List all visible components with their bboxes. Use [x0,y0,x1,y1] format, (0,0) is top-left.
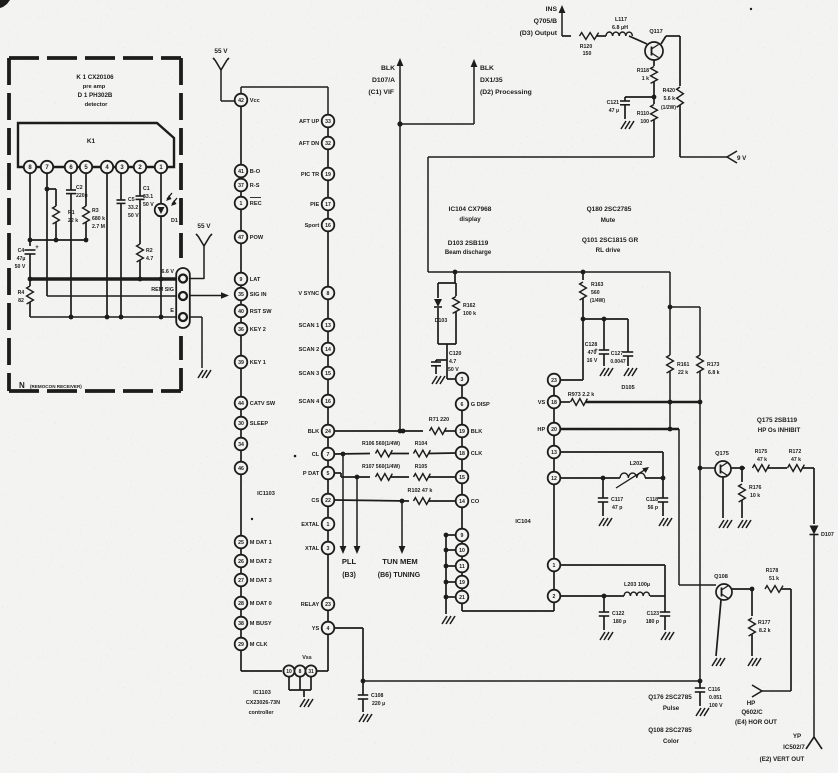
svg-text:5.6 k: 5.6 k [663,96,675,102]
pad E [179,313,187,321]
BLK wire pin24 to IC104 pin19 [334,430,423,432]
K1 pin 3 [116,161,128,173]
svg-text:IC1103: IC1103 [257,491,275,497]
IC1103 right rail segment to pin 32 [327,127,329,136]
IC1103 left rail segment to pin 9 [240,243,242,272]
IC1103 right rail segment to pin 22 [327,479,329,493]
svg-text:PIE: PIE [310,202,319,208]
node VIF / processing junction [397,121,402,126]
IC1103 pin 16 Sport [305,219,335,232]
node YS bottom rail [361,679,366,684]
svg-text:40: 40 [238,309,244,315]
svg-text:4.7: 4.7 [146,256,153,262]
svg-text:23: 23 [551,378,557,384]
hybrid module K1 body [18,123,174,167]
svg-text:R161: R161 [677,362,690,368]
IC1103 left rail segment to pin 27 [240,567,242,573]
svg-text:XTAL: XTAL [305,546,320,552]
svg-text:42: 42 [238,98,244,104]
node x669 top branch [668,305,673,310]
IC1103 right rail segment to pin 19 [327,149,329,167]
svg-text:47: 47 [238,235,244,241]
svg-text:(B3): (B3) [342,572,356,579]
IC1103 right rail segment to pin 17 [327,180,329,197]
IC1103 pin 32 AFT DN [299,137,335,150]
svg-text:56 p: 56 p [648,505,658,511]
svg-text:KEY 1: KEY 1 [250,360,266,366]
svg-text:36: 36 [238,327,244,333]
node BLK VIF junction [401,429,406,434]
svg-text:C122: C122 [612,611,625,617]
svg-text:KEY 2: KEY 2 [250,327,266,333]
svg-text:29: 29 [238,642,244,648]
IC104 pin 15 [456,471,469,484]
svg-text:BLK: BLK [471,429,483,435]
svg-text:(B6) TUNING: (B6) TUNING [378,572,421,579]
IC1103 pin 38 M BUSY [235,617,272,630]
PLL arrow from CL [342,454,344,548]
bottom long rail [363,680,700,682]
svg-text:D 1 PH302B: D 1 PH302B [78,92,113,99]
IC1103 pin 1 REC [235,197,262,210]
IC1103 pin 27 M DAT 3 [235,574,272,587]
svg-text:560: 560 [591,290,600,296]
svg-text:POW: POW [250,235,264,241]
svg-text:Pulse: Pulse [663,705,680,712]
IC1103 pin 46 [235,462,248,475]
IC1103 top rail [241,86,328,88]
IC104 pin 18 CLK [456,447,483,460]
ground C122 [600,632,605,640]
svg-text:1 k: 1 k [642,76,649,82]
svg-text:2.7 M: 2.7 M [92,224,105,230]
IC104 pin 18 VS [538,396,561,409]
CS wire pin22 to IC104 pin14 CO [334,500,409,501]
wire HP pin20 [560,428,679,430]
IC104 bottom-left pin stubs [446,534,456,536]
IC104 pin 21 [456,591,469,604]
node pin8 / 240 rail [28,238,33,243]
IC1103 pin 37 R-S [235,179,260,192]
IC1103 left rail segment to pin 40 [240,300,242,304]
svg-text:10: 10 [459,548,465,554]
svg-text:C4: C4 [18,248,25,254]
IC1103 left rail segment to pin 41 [240,106,242,164]
svg-text:CS: CS [311,498,319,504]
ground C123 [661,632,666,640]
transistor Q108 [716,584,732,600]
svg-text:detector: detector [85,102,109,108]
stray scan speck 3 [690,771,692,773]
svg-text:16: 16 [325,399,331,405]
IC1103 left rail segment to pin 44 [240,368,242,396]
IC104 right rail segment to pin 18 [553,386,555,395]
node CL PLL branch [341,452,346,457]
variable inductor L202 [620,473,645,478]
ground C116 [696,708,701,716]
svg-text:Color: Color [663,738,680,745]
svg-text:9: 9 [461,533,464,539]
node Q175 base junction [698,466,703,471]
wire R120 to L117 [596,35,606,37]
svg-text:R178: R178 [766,568,779,574]
inductor L117 [606,32,632,36]
svg-text:(1/4W): (1/4W) [590,298,605,304]
IC1103 pin 8 [294,665,305,676]
capacitor C123 [664,595,666,612]
ground of E [198,370,203,378]
svg-text:18: 18 [459,451,465,457]
svg-text:8: 8 [327,291,330,297]
IC1103 pin 47 POW [235,231,264,244]
svg-text:Q180 2SC2785: Q180 2SC2785 [587,206,632,213]
wire pad E to ground [190,316,202,318]
connector pill outline [176,268,190,328]
svg-text:VS: VS [538,400,546,406]
svg-text:R973 2.2 k: R973 2.2 k [568,392,594,398]
svg-text:0.051: 0.051 [709,695,722,701]
svg-text:R172: R172 [789,449,802,455]
wires pair bottom [437,308,439,344]
svg-text:9: 9 [240,277,243,283]
svg-text:15: 15 [459,475,465,481]
svg-text:SCAN 1: SCAN 1 [299,323,320,329]
svg-text:SCAN 4: SCAN 4 [299,399,320,405]
resistor R3 [83,206,90,224]
svg-text:L203 100µ: L203 100µ [624,582,650,588]
Q175 emitter [722,477,724,518]
svg-text:21: 21 [459,595,465,601]
resistor R175 [753,465,770,472]
wire D1 to 6.6V bus and E rail [160,217,162,317]
svg-text:HP: HP [537,427,545,433]
svg-text:L117: L117 [615,17,627,23]
IC104 pin 19 BLK [456,425,483,438]
svg-text:M BUSY: M BUSY [250,621,272,627]
node R973 junction x700 [698,400,703,405]
svg-text:C2: C2 [76,185,83,191]
CL wire pin7 to IC104 pin18 CLK [334,453,370,456]
wire pin4 down [106,173,108,317]
svg-text:R177: R177 [758,620,771,626]
IC1103 pin 31 Vss [305,665,316,676]
svg-text:B-O: B-O [250,169,261,175]
svg-text:AFT DN: AFT DN [299,141,320,147]
svg-text:(1/2W): (1/2W) [661,105,676,111]
svg-text:R420: R420 [663,88,676,94]
svg-text:33.1: 33.1 [143,194,153,200]
svg-text:Q108: Q108 [714,574,728,580]
svg-text:12: 12 [551,476,557,482]
svg-text:37: 37 [238,183,244,189]
IC104 pin 19 [456,576,469,589]
svg-text:82: 82 [18,298,24,304]
node R177 junction [750,587,755,592]
node C116 junction [698,679,703,684]
IC104 pin 13 [548,446,561,459]
svg-text:Vcc: Vcc [250,98,260,104]
svg-text:150: 150 [583,51,592,57]
IC104 left rail segment to pin 19 [461,572,463,575]
stray scan speck 2 [750,8,752,10]
wire node to C121 [625,96,654,98]
svg-text:18: 18 [551,400,557,406]
svg-text:IC1103: IC1103 [253,690,271,696]
IC1103 right rail segment to pin 14 [327,331,329,342]
svg-text:7: 7 [327,452,330,458]
node pin7 branch [45,187,50,192]
resistor R102 [414,498,431,505]
svg-text:SLEEP: SLEEP [250,421,269,427]
svg-text:(E2) VERT OUT: (E2) VERT OUT [760,756,805,763]
svg-text:AFT UP: AFT UP [299,119,319,125]
capacitor C1 [136,195,145,197]
rail x669 [669,272,671,355]
svg-text:R173: R173 [707,362,720,368]
svg-text:CLK: CLK [471,451,483,457]
IC1103 pin 23 RELAY [301,598,335,611]
IC1103 right rail segment to pin 23 [327,554,329,597]
svg-text:(E4) HOR OUT: (E4) HOR OUT [735,719,777,726]
svg-text:IC104 CX7968: IC104 CX7968 [449,206,492,213]
svg-text:R-S: R-S [250,183,260,189]
svg-text:C1: C1 [143,186,150,192]
IC1103 pin 13 SCAN 1 [299,319,335,332]
svg-text:YS: YS [312,626,320,632]
svg-text:50 V: 50 V [15,264,26,270]
svg-text:Q117: Q117 [649,29,662,35]
svg-text:R176: R176 [749,485,762,491]
svg-text:4: 4 [327,626,330,632]
bottom loop pin21 to pin2 [461,603,463,611]
svg-text:17: 17 [325,202,331,208]
IC104 right rail segment to pin 12 [553,458,555,471]
svg-text:22: 22 [325,498,331,504]
IC104 left rail segment to pin 10 [461,541,463,543]
svg-text:BLK: BLK [480,65,494,72]
svg-text:34: 34 [238,442,244,448]
svg-text:(REMOCON RECEIVER): (REMOCON RECEIVER) [30,384,82,389]
svg-text:Q108 2SC2785: Q108 2SC2785 [648,727,692,734]
svg-text:16 V: 16 V [587,358,598,364]
wire L117 to Q117 [629,36,647,44]
VERT OUT terminal [806,737,814,749]
svg-text:180 p: 180 p [646,619,659,625]
INS Q705/B (D3) Output arrow [561,11,563,36]
svg-text:16: 16 [325,223,331,229]
photo diode D1 [155,204,168,217]
K1 pin 7 [41,161,53,173]
IC1103 right rail segment to pin 7 [327,437,329,447]
svg-text:EXTAL: EXTAL [301,522,320,528]
node R176 junction [740,466,745,471]
IC1103 left rail segment to pin 36 [240,317,242,322]
svg-text:33: 33 [325,119,331,125]
IC104 left rail segment to pin 9 [461,507,463,528]
capacitor C4 [25,249,36,251]
svg-text:M DAT 0: M DAT 0 [250,601,272,607]
wire pin7 down [46,173,48,296]
IC104 right rail segment to pin 1 [553,484,555,558]
wire to HOR OUT terminal [762,690,791,692]
scan corner mark [0,0,10,8]
ground C118 [659,518,664,526]
wire antenna to pin42 [221,100,234,102]
ground C108 [359,714,364,722]
svg-text:(D2) Processing: (D2) Processing [480,89,532,96]
ground C127 [624,368,629,376]
svg-text:C116: C116 [708,687,720,693]
resistor R177 [751,589,753,616]
svg-text:39: 39 [238,360,244,366]
svg-text:Mute: Mute [601,217,616,224]
bottom-left stub rail [445,535,447,614]
wire pin7 to R1 [47,188,56,190]
node R973 junction x669 [668,400,673,405]
svg-text:D107/A: D107/A [372,77,395,84]
IC1103 pin 3 XTAL [305,542,334,555]
IC1103 left rail segment to pin 38 [240,609,242,616]
svg-text:2: 2 [553,594,556,600]
resistor R2 [137,244,144,262]
IC104 pin 12 [548,472,561,485]
svg-text:REM SIG: REM SIG [151,287,174,293]
IC1103 pin 4 YS [312,622,335,635]
Q175 collector wire [731,467,745,469]
svg-text:M DAT 1: M DAT 1 [250,540,272,546]
diode D107 [810,526,819,535]
resistor R110 [653,97,655,104]
IC1103 right rail segment to pin 4 [327,610,329,621]
IC1103 left pin rail [240,87,242,94]
svg-text:3: 3 [461,377,464,383]
ground stub rail [442,616,447,624]
svg-text:100 k: 100 k [463,311,476,317]
svg-text:SIG IN: SIG IN [250,292,267,298]
wire pin3 down with C5 [120,173,122,200]
svg-text:R175: R175 [755,449,768,455]
PLL arrow from P DAT [356,477,358,548]
svg-text:55 V: 55 V [197,223,211,230]
svg-text:IC104: IC104 [515,519,531,525]
svg-text:C127: C127 [611,351,624,357]
ground R177 [748,658,753,666]
inductor L203 [624,592,650,596]
K1 pin 1 [155,161,167,173]
IC104 left rail segment to pin 18 [461,437,463,446]
svg-text:8: 8 [299,669,302,675]
IC1103 left rail segment to pin 26 [240,548,242,554]
wire HP to Q108 base [679,584,716,586]
HOR OUT terminal [752,685,762,691]
svg-text:6: 6 [461,402,464,408]
svg-text:M DAT 2: M DAT 2 [250,559,272,565]
svg-text:RL drive: RL drive [596,247,621,254]
svg-text:G DISP: G DISP [471,402,490,408]
ground Q175 emitter [719,520,724,528]
svg-text:23: 23 [325,602,331,608]
light arrows into D1 [167,193,172,199]
svg-text:Q175: Q175 [715,451,729,457]
IC1103 pin 33 AFT UP [299,115,334,128]
svg-text:6.6 V: 6.6 V [161,269,174,275]
svg-text:Q602/C: Q602/C [741,709,763,716]
IC104 right rail segment to pin 20 [553,408,555,422]
svg-text:44: 44 [238,401,244,407]
IC1103 left rail segment to pin 34 [240,429,242,437]
IC1103 pin 17 PIE [310,198,334,211]
IC1103 right rail segment to pin 24 [327,407,329,424]
resistor R4 [29,279,31,286]
svg-text:R120: R120 [580,44,593,50]
svg-text:6.8 k: 6.8 k [708,370,720,376]
K1 pin 6 [65,161,77,173]
svg-text:LAT: LAT [250,277,261,283]
IC1103 pin 35 SIG IN [235,288,267,301]
svg-text:C128: C128 [585,342,598,348]
svg-text:26: 26 [238,559,244,565]
svg-text:N: N [19,381,25,390]
svg-text:M CLK: M CLK [250,642,268,648]
IC104 pin 23 [548,374,561,387]
svg-text:5: 5 [327,471,330,477]
svg-text:C123: C123 [647,611,660,617]
YS wire pin4 [334,627,363,629]
TUN MEM arrow from CS [401,501,403,548]
resistor R105 [414,474,431,481]
IC104 left rail segment to pin 19 [461,410,463,424]
resistor R172 [788,465,805,472]
svg-text:27: 27 [238,578,244,584]
svg-text:9 V: 9 V [737,155,747,162]
IC1103 pin 19 PIC TR [301,168,334,181]
svg-text:47µ: 47µ [17,256,26,262]
wire R3 to 240 rail [85,222,87,240]
svg-text:30: 30 [238,421,244,427]
svg-text:V SYNC: V SYNC [298,291,319,297]
9V terminal [727,151,737,157]
svg-text:Q705/B: Q705/B [534,18,558,25]
D103 R162 parallel pair wires [454,272,456,283]
svg-text:D1: D1 [171,218,178,224]
IC1103 pin 41 B-O [235,165,261,178]
K1 pin 4 [101,161,113,173]
svg-text:Q175 2SB119: Q175 2SB119 [757,417,798,424]
svg-text:R71 220: R71 220 [429,417,449,423]
IC1103 left rail segment to pin 47 [240,209,242,230]
wire R1 to 240 rail [55,222,57,240]
wire 240 rail [30,239,88,241]
IC1103 pin 28 M DAT 0 [235,597,272,610]
supply rail y272 [428,271,670,273]
svg-text:E: E [170,308,174,314]
svg-text:3: 3 [327,546,330,552]
IC1103 pin 26 M DAT 2 [235,555,272,568]
IC104 pin 14 CO [456,495,480,508]
svg-text:55 V: 55 V [214,48,228,55]
resistor R420 5.6k 1/2W [679,36,681,86]
ground IC1103 [300,699,305,707]
IC104 pin 3 [456,373,469,386]
IC1103 right rail segment to pin 8 [327,231,329,286]
resistor R162 [453,297,460,314]
IC1103 right rail top [327,87,329,115]
svg-text:50 V: 50 V [448,367,459,373]
capacitor C118 [662,478,664,498]
svg-text:50 V: 50 V [128,213,139,219]
svg-text:10 k: 10 k [750,493,760,499]
svg-text:13: 13 [325,323,331,329]
